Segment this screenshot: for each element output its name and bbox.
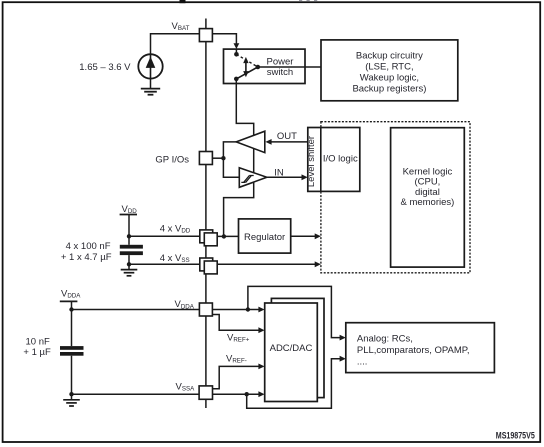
svg-text:MS19875V5: MS19875V5 — [496, 430, 535, 440]
wire bottom stub out of switch — [235, 79, 237, 85]
wire VBAT rail stub above pad — [205, 19, 207, 29]
pad GP I/Os — [199, 152, 212, 165]
pad VBAT — [199, 29, 212, 42]
wire VDDA to analog block — [248, 286, 340, 337]
node GPIO — [221, 156, 225, 160]
svg-text:+ 1 µF: + 1 µF — [23, 347, 51, 358]
wire 4xVSS pad to core — [217, 263, 315, 265]
wire main supply rail — [205, 42, 207, 408]
divider level shifter — [320, 128, 322, 192]
svg-text:PLL,comparators, OPAMP,: PLL,comparators, OPAMP, — [357, 345, 470, 356]
svg-text:Backup registers): Backup registers) — [352, 83, 426, 94]
wire VBAT top left to source — [151, 34, 200, 55]
node switch VDD input — [234, 77, 239, 82]
dashed core domain box — [321, 122, 470, 273]
svg-text:GP I/Os: GP I/Os — [155, 155, 189, 166]
wire cap to VSSA line — [71, 356, 73, 400]
switch motion double arrow — [243, 57, 248, 77]
pad VSSA — [199, 386, 212, 399]
wire VREF+ — [212, 315, 260, 331]
kernel logic box — [391, 128, 465, 267]
voltage source V1 1.65-3.6V — [138, 54, 162, 78]
wire cap to ground — [128, 255, 130, 270]
svg-text:Regulator: Regulator — [244, 232, 285, 243]
backup circuitry box — [321, 40, 458, 101]
capacitor C2 analog — [60, 346, 84, 350]
wire OUT from level shifter — [271, 141, 308, 143]
node VSSA adc — [245, 392, 249, 396]
node VSS — [127, 262, 131, 266]
svg-text:+ 1 x 4.7 µF: + 1 x 4.7 µF — [61, 252, 112, 263]
ADC/DAC front box — [265, 303, 318, 402]
wire VREF- — [212, 366, 260, 388]
wire VDD stub to cap — [128, 215, 130, 245]
wire 4xVSS — [129, 263, 200, 265]
wire VBAT pad to power switch — [212, 34, 236, 44]
svg-text:10 nF: 10 nF — [26, 336, 50, 347]
node regulator input — [222, 234, 226, 238]
node VDDA adc — [246, 307, 250, 311]
pads 4xVDD — [200, 230, 213, 243]
svg-text:OUT: OUT — [277, 131, 297, 142]
pad VDDA — [199, 303, 212, 316]
svg-text:Analog: RCs,: Analog: RCs, — [357, 334, 413, 345]
wire VDDA line — [72, 309, 200, 311]
svg-text:Backup circuitry: Backup circuitry — [356, 51, 423, 62]
schmitt input buffer IN — [239, 168, 266, 188]
ground for VDD caps — [121, 270, 138, 276]
svg-text:I/O logic: I/O logic — [323, 153, 358, 164]
analog peripherals box — [346, 323, 495, 373]
node VDD — [127, 234, 131, 238]
wire regulator to core — [291, 235, 316, 237]
ADC/DAC back box — [271, 298, 324, 397]
wire node to OUT buffer — [223, 142, 236, 158]
wire VSSA pad to ADC — [212, 393, 260, 395]
wire 4xVDD — [129, 235, 200, 237]
pads 4xVSS — [200, 258, 213, 271]
svg-text:Wakeup logic,: Wakeup logic, — [360, 72, 419, 83]
wire VDD pad to regulator — [213, 235, 239, 237]
wire VDDA stub — [71, 301, 73, 346]
VDDA supply tick — [60, 300, 78, 302]
regulator box — [239, 219, 291, 253]
capacitor C1 decoupling — [120, 245, 143, 249]
op-amp style output buffer OUT — [236, 131, 265, 152]
wire power switch bottom to VDD node — [224, 79, 254, 237]
svg-text:ADC/DAC: ADC/DAC — [270, 343, 313, 354]
wire VSSA line — [72, 393, 200, 395]
wire source to ground — [150, 79, 152, 89]
wire IN to level shifter — [267, 176, 302, 178]
svg-text:Level shifter: Level shifter — [306, 136, 317, 187]
switch throw dashed — [236, 54, 257, 67]
node VDDA — [69, 307, 73, 311]
svg-text:....: .... — [357, 357, 368, 368]
wire top stub into switch — [235, 49, 237, 54]
switch lever — [236, 67, 257, 79]
svg-text:switch: switch — [267, 67, 293, 78]
wire VSSA to analog block — [247, 359, 341, 409]
wire switch to backup — [258, 66, 321, 68]
svg-text:Power: Power — [267, 56, 294, 67]
ground analog — [63, 400, 80, 406]
VDD supply tick — [120, 214, 137, 216]
svg-text:1.65 – 3.6 V: 1.65 – 3.6 V — [79, 62, 131, 73]
level shifter / IO logic box — [308, 128, 360, 192]
wire GPIO pad to node — [212, 157, 223, 159]
power switch box — [224, 49, 306, 83]
ground for source — [141, 89, 160, 95]
svg-text:(LSE, RTC,: (LSE, RTC, — [365, 62, 413, 73]
node VSSA — [69, 392, 73, 396]
node switch common — [255, 65, 260, 70]
svg-text:IN: IN — [274, 167, 284, 178]
svg-text:& memories): & memories) — [400, 197, 454, 208]
wire node to IN buffer — [223, 158, 239, 177]
svg-text:4 x 100 nF: 4 x 100 nF — [66, 241, 111, 252]
node switch VBAT input — [234, 52, 239, 57]
wire VDDA pad to ADC — [212, 309, 260, 311]
